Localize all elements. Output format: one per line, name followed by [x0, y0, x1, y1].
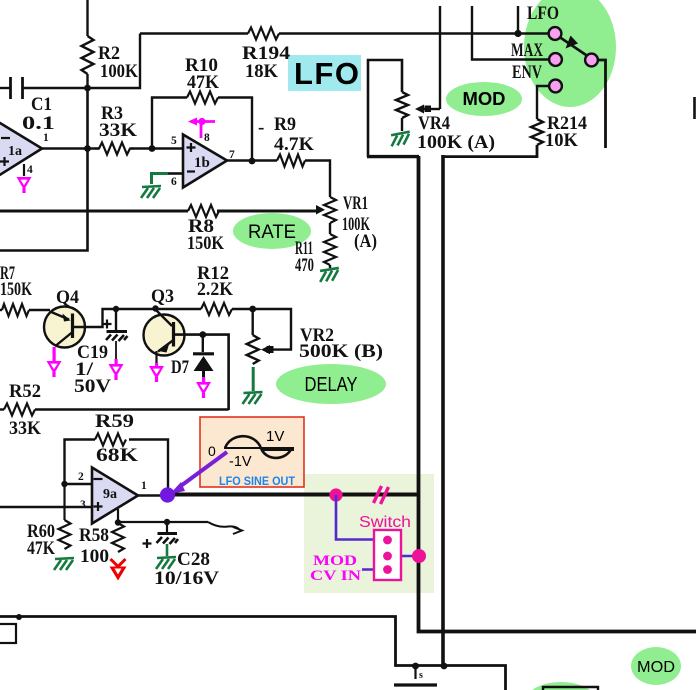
hand-drawn arrow to the right of C28	[208, 522, 242, 534]
ground below U1b pin6 (green wire + symbol)	[141, 174, 168, 199]
VR2 wiper arrowhead	[261, 345, 274, 354]
switch common contact (pink)	[585, 54, 598, 67]
wire: pin2 node down to R60	[63, 484, 65, 520]
transistor Q4	[44, 307, 85, 348]
svg-text:LFO SINE OUT: LFO SINE OUT	[219, 476, 295, 488]
svg-text:CV IN: CV IN	[310, 568, 361, 584]
MOD annotation ellipse (bottom right)	[631, 647, 681, 685]
svg-text:Q4: Q4	[56, 287, 79, 308]
resistor R11	[324, 234, 336, 265]
node Q3 collector junction	[152, 305, 158, 311]
svg-text:s: s	[419, 670, 423, 681]
node R12/VR2 junction	[249, 306, 256, 313]
violet wire: pink node to switch top contact	[336, 495, 384, 540]
node C19 junction	[113, 306, 119, 312]
node U1a output junction	[84, 145, 91, 152]
potentiometer VR1	[324, 197, 336, 223]
violet wire: switch bottom contact to CV IN label	[362, 568, 384, 571]
wire: long vertical bus B x=443	[441, 155, 445, 666]
wire: R52 to Q3/D7 corner	[35, 408, 229, 410]
purple node dot LFO sine output	[160, 487, 175, 502]
wire: switch common to right then down	[597, 60, 606, 148]
resistor R10	[187, 92, 218, 104]
svg-text:VR4: VR4	[418, 113, 450, 134]
wire: R9 to VR1 top	[305, 161, 330, 198]
partial green ellipse bottom center	[525, 682, 597, 690]
svg-text:68K: 68K	[96, 445, 138, 466]
svg-text:47K: 47K	[27, 538, 55, 559]
wire: R214 bottom to bus B	[443, 145, 537, 157]
VR4 wiper arrowhead	[415, 105, 431, 114]
svg-text:MOD: MOD	[463, 89, 506, 109]
DELAY annotation ellipse	[276, 364, 386, 404]
switch lever arrowhead	[566, 36, 579, 49]
resistor R9	[277, 155, 305, 167]
svg-text:MOD: MOD	[637, 659, 675, 676]
wire: VR1 to R11	[329, 223, 331, 234]
svg-text:1a: 1a	[8, 144, 22, 159]
wire: VR4 bottom stub to ground	[401, 118, 403, 131]
wire: 9a output to purple node	[138, 494, 162, 497]
wire: R2 bottom to node	[86, 74, 88, 88]
potentiometer VR4	[396, 92, 408, 118]
transistor Q3	[144, 310, 185, 356]
svg-text:R9: R9	[274, 114, 296, 135]
svg-text:50V: 50V	[74, 376, 111, 397]
svg-text:5: 5	[171, 135, 177, 147]
violet wire: switch middle contact to bus node	[390, 555, 418, 558]
resistor R12	[201, 303, 232, 315]
svg-text:RATE: RATE	[248, 222, 296, 243]
wire: stub under node (415,666)	[414, 666, 416, 679]
svg-text:47K: 47K	[187, 72, 219, 93]
wire: R59 to output node	[129, 440, 168, 495]
wire: LFO sine out bus to vertical bus A	[168, 493, 419, 497]
node bus B bottom junction	[441, 663, 448, 670]
wire: D7 node stub	[202, 335, 204, 352]
wire: Q3 emitter stub down	[155, 351, 157, 363]
wire: top feedback run y=33	[140, 32, 248, 35]
ground below VR2 (green stem)	[243, 367, 263, 404]
wire break marks on output bus	[374, 486, 389, 504]
switch component box	[374, 530, 401, 580]
capacitor C19	[106, 309, 128, 359]
svg-text:470: 470	[295, 255, 314, 276]
node R58 top junction	[115, 519, 121, 525]
svg-text:Q3: Q3	[151, 286, 174, 307]
wire: right edge fragment	[693, 97, 696, 119]
svg-text:100: 100	[80, 546, 109, 567]
ground below C28 (green stem)	[156, 544, 176, 569]
RATE annotation ellipse	[233, 213, 311, 249]
svg-text:100K (A): 100K (A)	[417, 132, 495, 153]
svg-text:MOD: MOD	[313, 553, 357, 569]
MOD annotation ellipse (top)	[446, 82, 522, 116]
potentiometer VR2	[247, 335, 259, 364]
node top bus / LFO contact junction	[514, 30, 521, 37]
component box at bottom left edge	[0, 624, 16, 643]
op-amp U1b	[183, 135, 227, 188]
wire: R7 to Q4 emitter	[29, 309, 50, 311]
wire: R12 to VR2 top node	[232, 308, 253, 310]
svg-text:4.7K: 4.7K	[274, 134, 314, 155]
wire: main vertical left bus x=87	[86, 0, 88, 36]
node R2/C1 junction	[84, 85, 91, 92]
svg-text:4: 4	[27, 164, 33, 176]
svg-text:D7: D7	[171, 357, 189, 378]
C19 polarity plus	[103, 320, 112, 329]
wire: R194 to LFO switch node	[279, 32, 555, 35]
svg-text:1: 1	[141, 480, 147, 492]
resistor R8	[188, 205, 219, 217]
svg-text:0: 0	[208, 443, 216, 459]
red arrow below R58	[110, 559, 127, 581]
pale green switch panel	[304, 474, 434, 593]
svg-text:DELAY: DELAY	[305, 374, 358, 396]
svg-text:R59: R59	[95, 411, 134, 432]
wire: RATE bus y=211	[0, 210, 188, 213]
wire: 9a pin2 input	[65, 483, 93, 485]
svg-text:7: 7	[229, 149, 235, 161]
VR1 wiper arrowhead	[316, 205, 325, 215]
switch mode contact MAX (pink)	[549, 53, 562, 66]
resistor R2	[82, 36, 94, 74]
wire: 1b output through node to R9	[227, 159, 277, 162]
resistor R194	[248, 28, 279, 40]
switch box contact dots	[383, 536, 392, 574]
svg-text:1: 1	[43, 132, 49, 144]
wire: ENV contact down to R214	[537, 86, 550, 119]
C28 polarity plus	[143, 539, 152, 548]
svg-text:Switch: Switch	[359, 514, 411, 531]
resistor R7	[2, 304, 29, 316]
ground below VR4	[390, 132, 411, 147]
resistor R3	[95, 143, 134, 155]
magenta V- arrow below Q4 (with stem)	[47, 347, 62, 377]
diode D7	[193, 354, 214, 377]
wire: node at (87,88) down through 1a output to y=250 then left	[0, 88, 88, 251]
bottom plate under node	[394, 683, 437, 686]
svg-text:C1: C1	[31, 94, 52, 115]
wire: VR4 frame top loop	[368, 60, 402, 157]
wire: feedback left leg of 1b	[152, 98, 187, 149]
svg-text:0.1: 0.1	[22, 113, 55, 134]
wire: stub from top edge to node (518,33)	[517, 6, 519, 34]
magenta V- arrow below Q3 (with stem)	[149, 363, 164, 382]
node bottom rail stub junction	[412, 663, 419, 670]
magenta V- arrow below U1a pin4	[17, 177, 32, 193]
wire: R58 node to C28 and beyond	[118, 521, 208, 523]
LFO cyan title box	[288, 55, 361, 91]
switch mode contact ENV (pink)	[549, 80, 562, 93]
wire: VR2 top node down	[251, 309, 253, 335]
svg-text:3: 3	[80, 499, 86, 511]
svg-text:33K: 33K	[99, 120, 137, 141]
svg-text:ENV: ENV	[512, 62, 542, 83]
SCHEMATIC-TEXT	[0, 3, 587, 589]
svg-text:R58: R58	[79, 525, 109, 546]
wire: stub from top edge to MAX wire x=472	[472, 6, 549, 60]
svg-text:500K (B): 500K (B)	[299, 341, 383, 362]
resistor R59	[95, 434, 126, 446]
svg-text:9a: 9a	[103, 487, 117, 502]
wire: VR4 wiper feed with left arrow	[424, 108, 440, 110]
resistor R60	[59, 520, 71, 549]
ground below R60	[54, 558, 74, 570]
svg-text:18K: 18K	[245, 61, 278, 82]
op-amp U9a feedback loop left leg	[65, 440, 96, 485]
resistor R58	[112, 523, 124, 552]
svg-text:150K: 150K	[187, 233, 224, 254]
capacitor C1	[0, 77, 88, 99]
svg-text:1b: 1b	[194, 155, 210, 171]
node U1b pin5 input junction	[149, 145, 156, 152]
svg-text:-: -	[258, 117, 264, 138]
svg-text:10K: 10K	[545, 130, 578, 151]
capacitor C28	[157, 522, 179, 544]
partial component box bottom center	[543, 687, 598, 690]
svg-text:(A): (A)	[354, 231, 377, 252]
svg-text:8: 8	[204, 132, 210, 144]
wire: long vertical bus A x=418.5 down and out right	[419, 156, 696, 632]
wire: stub from top edge down to VR4 wiper feed x=440	[439, 6, 441, 109]
svg-text:6: 6	[171, 176, 177, 188]
wire: bottom rail from left edge	[0, 617, 506, 690]
wire: R10 to 1b output node	[218, 98, 252, 162]
wire: switch lever LFO to common	[558, 36, 589, 57]
svg-text:1V: 1V	[266, 428, 284, 445]
sine graph inside callout	[224, 436, 294, 458]
wire: left bracket to long vertical bus A	[367, 155, 419, 158]
label MOD CV IN	[310, 553, 361, 584]
switch mode contact LFO (pink)	[549, 27, 562, 40]
op-amp U1a	[0, 115, 42, 184]
wire: Q3 base to D7 node to right corner down	[175, 335, 229, 410]
green highlight circle around mode switch	[524, 0, 616, 107]
ground below VR1/R11	[319, 268, 340, 282]
svg-text:10/16V: 10/16V	[154, 568, 219, 589]
LFO sine out callout box	[200, 417, 304, 487]
svg-text:LFO: LFO	[527, 3, 559, 24]
svg-text:MAX: MAX	[511, 40, 543, 61]
magenta V- arrow below C19 (with stem)	[109, 359, 124, 380]
wire: 1a output to R3	[42, 147, 99, 149]
wire: R11 to ground	[329, 265, 331, 268]
wire: node (87,88) right then up to top feedback wire	[88, 34, 141, 89]
resistor R214	[531, 119, 543, 145]
svg-text:VR1: VR1	[343, 193, 368, 214]
wire: R58 stub from 9a	[117, 509, 119, 523]
node bottom rail left junction	[16, 614, 22, 620]
wire: node bus to Q3 collector node	[116, 308, 201, 310]
resistor R52	[4, 404, 35, 416]
wire: VR2 wiper loop	[253, 309, 291, 350]
svg-text:R52: R52	[9, 381, 41, 402]
wire: 1b pin6 stub black part	[168, 172, 183, 175]
node U1b output junction	[249, 158, 256, 165]
svg-text:33K: 33K	[9, 418, 41, 439]
wire: 1a pin4 stub	[23, 164, 25, 176]
node C28 junction	[164, 519, 170, 525]
svg-text:C28: C28	[177, 549, 210, 570]
svg-text:2.2K: 2.2K	[197, 279, 233, 300]
pink node on output bus	[329, 488, 342, 501]
magenta V- arrow below D7 (with stem)	[196, 377, 211, 398]
svg-text:LFO: LFO	[294, 56, 361, 91]
wire: R8 to VR1 wiper arrow	[217, 210, 316, 213]
wire: R7 from left edge	[0, 309, 2, 311]
wire: 9a pin3 input from left edge	[0, 506, 92, 508]
node U9a pin2 feedback junction	[61, 481, 67, 487]
wire: Q4 base right jog up to node	[74, 309, 116, 327]
svg-text:100K: 100K	[100, 61, 138, 82]
wire: R52 bus y=410	[0, 408, 4, 410]
svg-text:150K: 150K	[0, 279, 32, 300]
wire: R3 to 1b input node	[131, 147, 183, 149]
node D7 cathode junction	[199, 331, 206, 338]
svg-text:-1V: -1V	[229, 454, 252, 470]
purple arrow from callout to output node	[170, 452, 227, 494]
svg-text:2: 2	[78, 471, 84, 483]
magenta test-point marker above U1b pin8	[188, 118, 215, 139]
pink node on vertical bus A	[412, 549, 426, 563]
op-amp U9a	[92, 468, 138, 524]
